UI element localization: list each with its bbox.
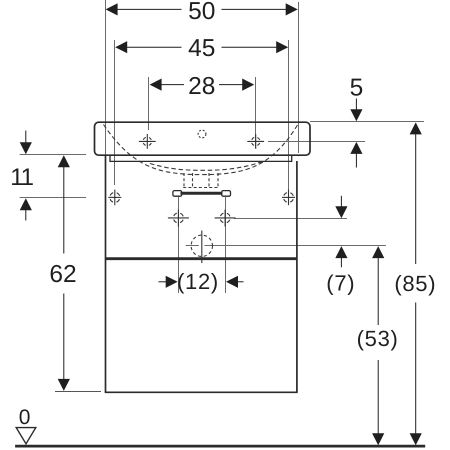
svg-text:28: 28 — [188, 73, 215, 100]
svg-text:62: 62 — [49, 261, 76, 288]
svg-text:(53): (53) — [357, 326, 399, 351]
svg-text:50: 50 — [188, 0, 215, 25]
svg-text:11: 11 — [10, 164, 33, 191]
svg-text:5: 5 — [350, 75, 364, 102]
svg-text:(12): (12) — [177, 269, 219, 294]
svg-text:0: 0 — [19, 406, 31, 429]
svg-text:(7): (7) — [326, 271, 355, 296]
svg-text:(85): (85) — [394, 271, 436, 296]
svg-text:45: 45 — [188, 35, 215, 62]
